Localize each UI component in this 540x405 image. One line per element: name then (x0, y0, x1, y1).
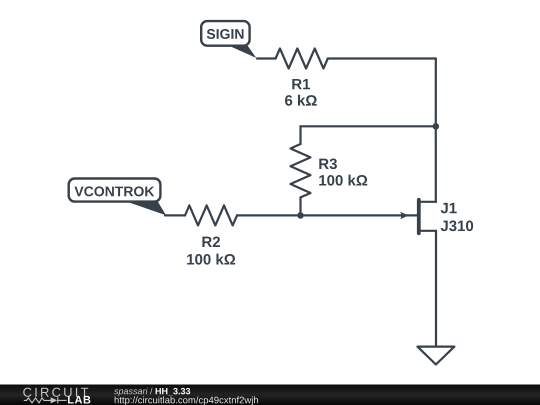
wire node to R3 top (301, 125, 436, 127)
label J1 value (441, 221, 474, 232)
node junction dot drain net (433, 123, 440, 130)
wire source to ground (435, 231, 437, 347)
label R1 value (285, 95, 317, 106)
wire vertical right drain branch (435, 59, 437, 202)
wire R3 bottom lead (299, 197, 301, 215)
flag VCONTROK box (69, 179, 161, 202)
flag SIGIN text (207, 29, 244, 39)
flag SIGIN tail (228, 45, 256, 58)
transistor J1 drain stub (420, 201, 436, 203)
wire R2 to JFET gate (237, 214, 417, 216)
wire VCONTROK tail to R2 (165, 214, 185, 216)
transistor J1 source stub (420, 230, 436, 232)
resistor R1 (276, 49, 328, 69)
wire R1 to top-right corner (328, 57, 436, 59)
transistor J1 gate arrow (400, 212, 408, 219)
label R2 (202, 237, 220, 247)
wire R3 top lead (299, 126, 301, 144)
label R1 (292, 79, 310, 89)
footer url line (115, 396, 258, 405)
footer author sep (150, 388, 153, 395)
flag VCONTROK text (74, 186, 154, 196)
wire SIGIN tail to R1 (257, 57, 276, 59)
label R3 value (319, 175, 367, 186)
footer author name (114, 388, 148, 396)
label R2 value (187, 254, 235, 265)
logo zigzag-diode glyph (24, 397, 67, 403)
label J1 (441, 203, 457, 213)
ground (417, 347, 454, 365)
logo diode triangle (51, 397, 58, 403)
logo LAB text (68, 396, 90, 404)
logo CIRCUIT text (23, 388, 88, 397)
resistor R2 (185, 205, 237, 225)
flag SIGIN box (201, 21, 249, 46)
footer bar (0, 385, 540, 405)
flag VCONTROK tail (124, 201, 166, 216)
resistor R3 (291, 144, 311, 197)
label R3 (319, 159, 337, 170)
node junction dot gate net (297, 212, 304, 219)
footer title (156, 388, 191, 395)
transistor J1 channel bar (417, 200, 421, 234)
